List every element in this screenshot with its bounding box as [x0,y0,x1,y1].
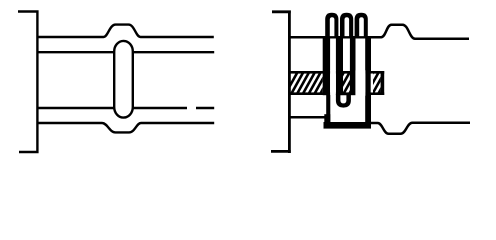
turn 2 slot (white interior) [345,17,350,36]
ferrite core bar: bottom edge [289,92,384,95]
winding leg column 1 (below top line to core) [323,37,330,96]
turn 2 of winding (loop over top) [340,13,353,39]
turn 3 front crossing (white knockout over core) [355,70,365,95]
turn 3 of winding (loop over top) [355,13,368,39]
turn 1 slot (white interior) [330,17,335,36]
turn 3 slot (white interior) [359,17,364,36]
turn 2 bottom U slot (white interior) [340,95,346,103]
turn 1 front crossing (white knockout over core) [330,70,336,95]
ferrite core bar: hatched body [284,70,403,97]
wire: top outer cable line with bump over ring [37,25,214,37]
winding leg column 3 [350,37,356,96]
wire: upper inner cable line [37,51,214,53]
wire: top cable line (left of turns, continues under turns) [290,36,381,39]
wire: top cable line right of turns with bump [367,25,469,39]
winding leg column 2 [336,37,343,96]
wire: bottom outer cable line with dip under ring [37,123,214,132]
wire: bottom cable line left of turns [290,116,328,119]
white sliver left of right hatch segment [371,74,373,93]
cable end bracket (right figure) [271,11,291,153]
ferrite core bar: right end edge [381,71,385,95]
cable end bracket (left figure) [18,10,39,153]
thick bottom bar under winding [324,122,372,129]
ferrite core bar: top edge [289,71,384,74]
junction blob at bottom line [324,114,330,123]
ferrite ring (vertical oval) [114,41,133,118]
winding leg column 4 (extends down to bottom bar) [365,37,371,124]
turn 1 of winding (loop over top, outer) [325,13,338,39]
turn 2 bottom U below core (black outer) [336,94,351,108]
wire: lower inner cable line (with gap right of ring) [37,107,214,109]
winding left stub below core to bottom line [326,95,330,128]
wire: bottom cable line right of turns with dip [370,123,470,134]
